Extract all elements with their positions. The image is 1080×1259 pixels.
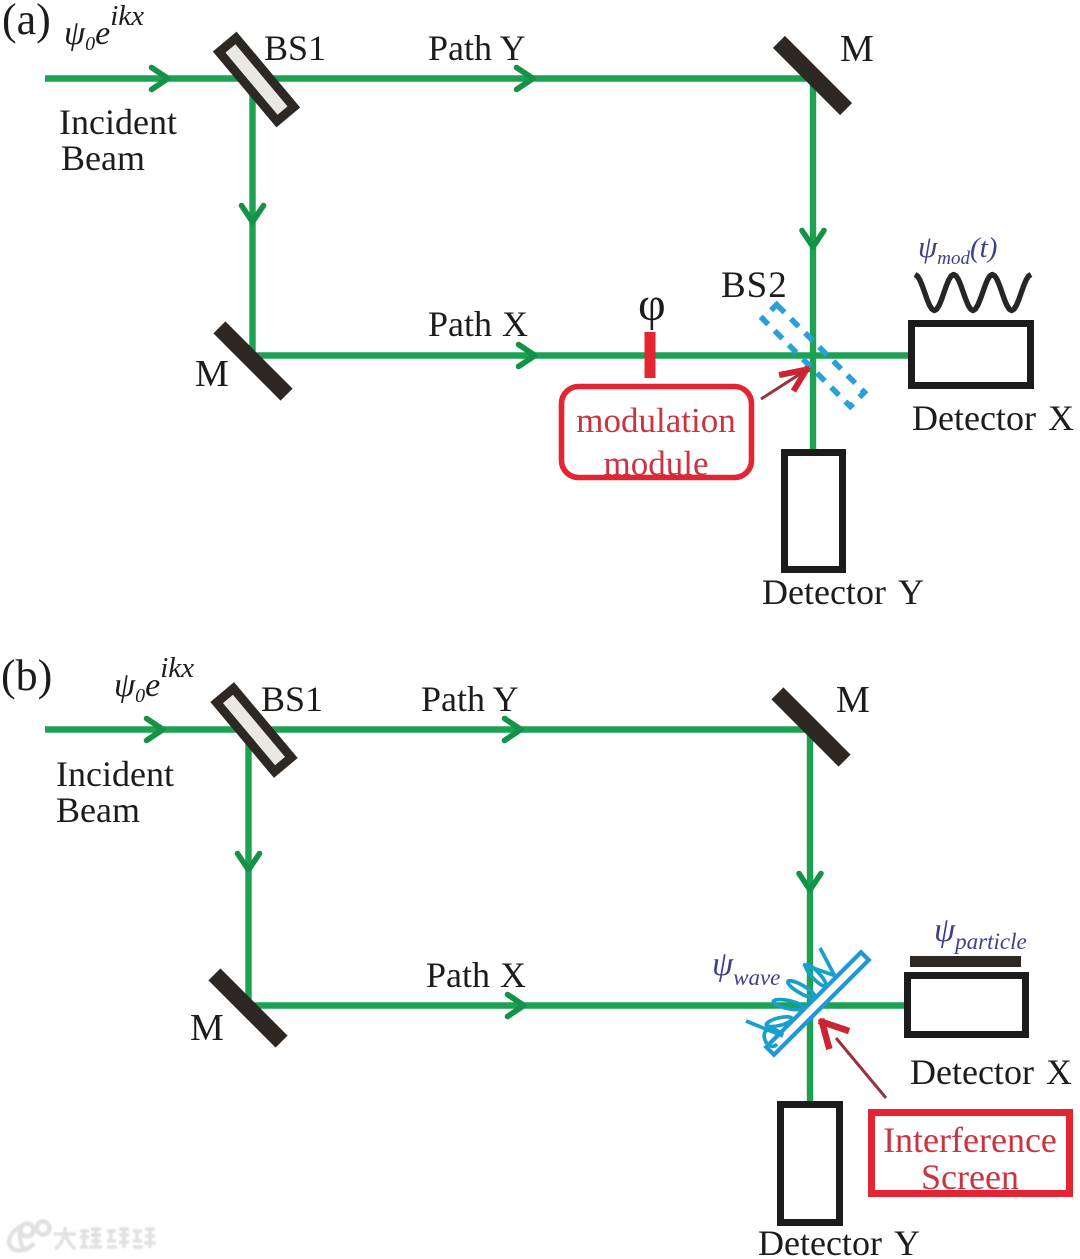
- wire: panel (a) Path X horizontal: [253, 352, 909, 358]
- wire: panel (b) Path X horizontal: [249, 1002, 905, 1008]
- svg-text:φ: φ: [638, 278, 666, 331]
- wave fringes psi_wave on screen: [746, 948, 835, 1046]
- svg-text:Screen: Screen: [921, 1157, 1019, 1197]
- wire: panel (b) right vertical M to screen to Detector Y: [807, 729, 813, 1101]
- sinusoid psi_mod above detector X: [915, 275, 1031, 311]
- svg-text:BS2: BS2: [721, 265, 788, 306]
- wire: panel (b) incident beam + Path Y horizontal: [45, 726, 810, 732]
- svg-text:modulation: modulation: [576, 401, 735, 440]
- detector X (a) box: [912, 324, 1031, 386]
- modulation module box: [562, 387, 752, 478]
- svg-text:Beam: Beam: [56, 790, 140, 830]
- beam splitter BS1 (a): [219, 38, 294, 121]
- svg-text:(b): (b): [1, 651, 52, 700]
- beam arrow on (a) incident beam: [152, 68, 169, 90]
- svg-text:M: M: [840, 28, 874, 70]
- interference screen (b), blue slab: [766, 952, 869, 1055]
- svg-text:BS1: BS1: [261, 679, 323, 719]
- phase plate tick (red) on Path X: [645, 332, 656, 378]
- svg-text:PathX: PathX: [428, 304, 528, 344]
- svg-text:DetectorX: DetectorX: [912, 398, 1074, 438]
- svg-text:PathX: PathX: [426, 955, 526, 995]
- red arrow (b) pointing to screen: [836, 1038, 886, 1098]
- mirror M (a) lower-left: [213, 321, 292, 400]
- detector Y (a) box: [785, 453, 843, 570]
- mirror M (b) lower-left: [208, 968, 287, 1047]
- beam splitter BS1 (b): [217, 688, 292, 771]
- svg-text:module: module: [604, 444, 709, 483]
- svg-text:(a): (a): [2, 0, 51, 44]
- wire: panel (a) incident beam + Path Y horizontal: [45, 75, 813, 81]
- detector Y (b) box: [781, 1105, 840, 1223]
- red arrow (a) pointing to BS2: [761, 374, 800, 399]
- svg-text:BS1: BS1: [264, 28, 326, 68]
- detector X (b) box: [908, 976, 1026, 1035]
- svg-text:M: M: [190, 1007, 224, 1049]
- mirror M (b) upper-right: [771, 687, 850, 766]
- svg-text:DetectorY: DetectorY: [758, 1223, 920, 1259]
- svg-text:Beam: Beam: [61, 138, 145, 178]
- svg-text:Path Y: Path Y: [428, 28, 526, 68]
- svg-text:Incident: Incident: [59, 102, 177, 142]
- svg-text:M: M: [195, 353, 229, 395]
- beam arrow on (b) right vertical path: [799, 874, 821, 891]
- wire: panel (b) vertical BS1 to mirror M: [245, 730, 251, 1005]
- beam arrow on (b) Path Y: [505, 719, 522, 741]
- svg-text:Interference: Interference: [883, 1120, 1057, 1160]
- svg-text:M: M: [836, 679, 870, 721]
- beam arrow on (a) Path X: [519, 345, 536, 367]
- interference screen label box: [872, 1113, 1070, 1194]
- svg-text:Incident: Incident: [56, 754, 174, 794]
- beam arrow on (b) Path X: [508, 995, 525, 1017]
- watermark text strokes (CJK-like): [54, 1227, 156, 1249]
- beam arrow on (a) right vertical path: [802, 231, 824, 248]
- svg-text:DetectorY: DetectorY: [762, 572, 924, 612]
- wire: panel (a) right vertical M to BS2 to Detector Y: [810, 78, 816, 449]
- beam splitter BS2 (a), dashed blue: [763, 305, 865, 407]
- svg-text:Path Y: Path Y: [421, 679, 519, 719]
- beam arrow on (a) left vertical path: [242, 206, 264, 223]
- beam arrow on (b) left vertical path: [238, 854, 260, 871]
- wire: panel (a) vertical BS1 to mirror M: [249, 79, 255, 355]
- watermark logo (faint "100" swoosh): [9, 1222, 156, 1251]
- beam arrow on (b) incident beam: [147, 719, 164, 741]
- svg-text:DetectorX: DetectorX: [910, 1052, 1072, 1092]
- beam arrow on (a) Path Y: [517, 68, 534, 90]
- mirror M (a) upper-right: [773, 36, 852, 115]
- particle bar above detector X (b): [910, 956, 1021, 967]
